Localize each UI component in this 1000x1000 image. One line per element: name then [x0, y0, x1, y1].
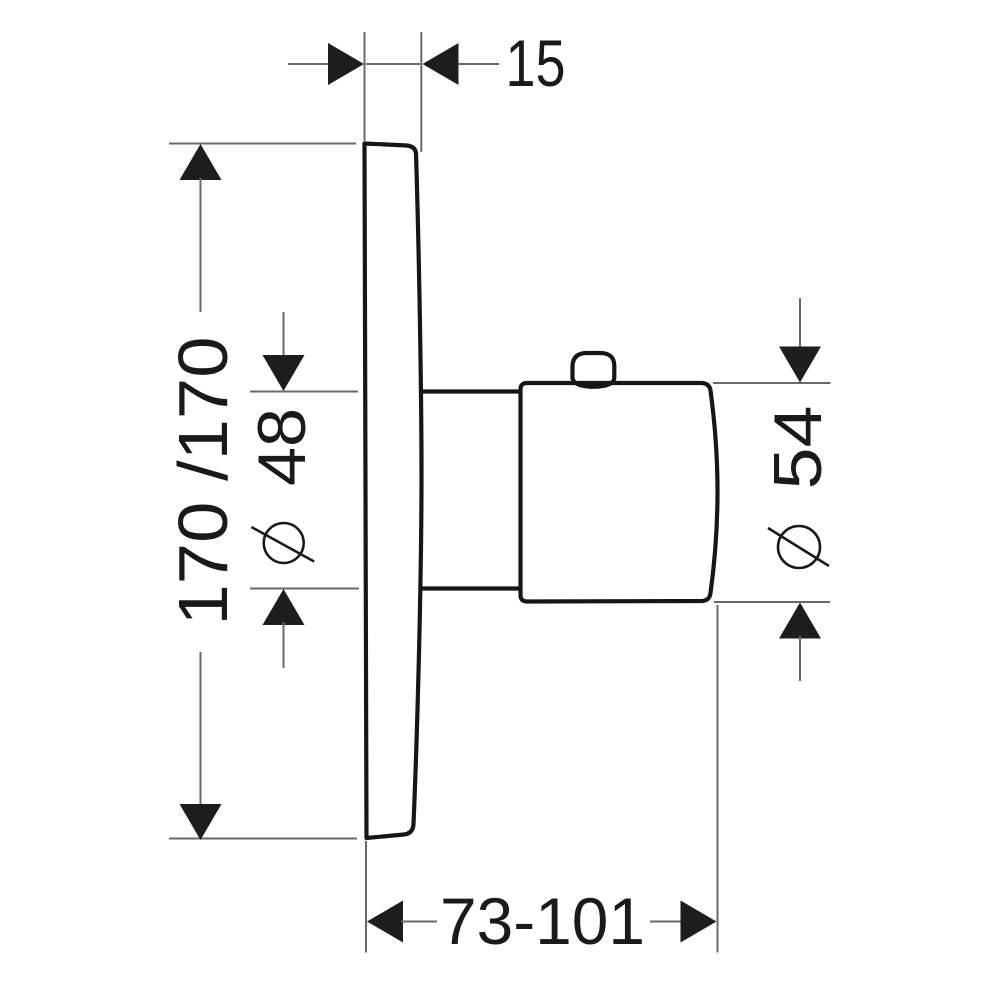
arrowhead 15 left	[328, 43, 364, 85]
extension line top of d48 dim	[250, 391, 358, 393]
dim line 73-101 left tail	[401, 921, 437, 923]
dim line d54 lower tail	[799, 636, 801, 681]
extension line right of 15 dim	[420, 32, 422, 152]
dim line 170 upper	[200, 178, 202, 312]
dim line 73-101 right tail	[650, 921, 682, 923]
arrowhead d48 down	[263, 355, 305, 391]
arrowhead d54 down	[779, 347, 821, 383]
svg-text:170 /170: 170 /170	[164, 337, 242, 626]
arrowhead d54 up	[779, 603, 821, 639]
dim line d48 lower tail	[283, 622, 285, 668]
dim line 15 left tail	[288, 63, 330, 65]
svg-text:54: 54	[760, 406, 836, 490]
plate (side view)	[365, 144, 422, 839]
arrowhead d48 up	[263, 589, 305, 625]
extension line left of 73-101 dim	[365, 841, 367, 953]
arrowhead 170 down	[180, 804, 222, 840]
diameter symbol d48	[264, 523, 304, 563]
extension line bottom of d54 dim	[714, 601, 830, 603]
arrowhead 73-101 right	[681, 901, 717, 943]
svg-text:15: 15	[506, 26, 566, 100]
dim line 170 lower	[200, 652, 202, 806]
knob body	[521, 383, 718, 602]
arrowhead 170 up	[180, 144, 222, 180]
extension line top of 170 dim	[169, 143, 356, 145]
dim line d54 upper tail	[799, 298, 801, 349]
svg-text:48: 48	[244, 408, 320, 486]
extension line top of d54 dim	[713, 382, 831, 384]
stem top edge	[420, 389, 522, 393]
extension line left of 15 dim	[364, 32, 366, 141]
diameter symbol d54	[778, 526, 820, 568]
stem bottom edge	[420, 586, 522, 590]
dim line 15 right tail	[458, 63, 499, 65]
arrowhead 15 right	[423, 43, 459, 85]
dim line d48 upper tail	[283, 312, 285, 358]
extension line right of 73-101 dim	[717, 605, 719, 953]
knob button	[573, 353, 615, 387]
arrowhead 73-101 left	[367, 901, 403, 943]
svg-text:73-101: 73-101	[440, 884, 645, 958]
dim line 15 mid	[366, 63, 420, 65]
extension line bottom of 170 dim	[169, 838, 357, 840]
extension line bottom of d48 dim	[250, 588, 359, 590]
